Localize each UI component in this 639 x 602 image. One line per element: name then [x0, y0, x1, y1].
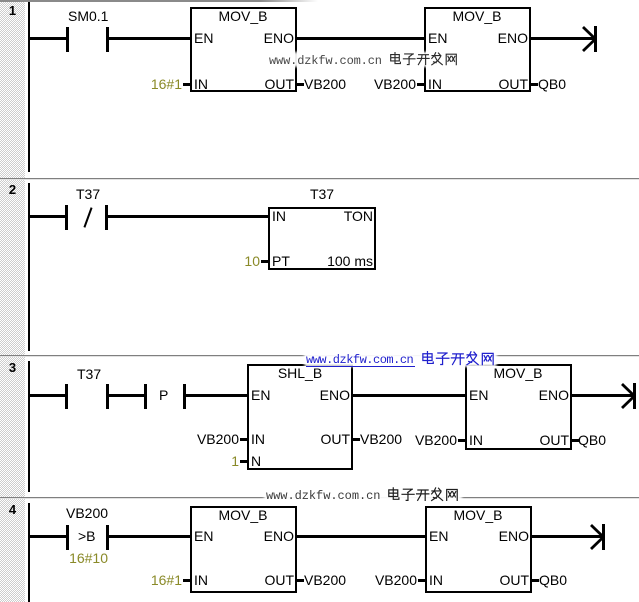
function block MOV_B (network 4 first)	[190, 506, 297, 593]
compare operator >B	[78, 529, 96, 543]
pin label ENO shl	[320, 388, 350, 402]
compare contact right bar	[106, 525, 109, 550]
contact label T37 (network 2)	[76, 187, 100, 201]
wire compare contact to MOV_B (network 4)	[109, 535, 192, 538]
title MOV_B	[183, 9, 303, 23]
operand VB200 at OUT n4a	[304, 573, 346, 587]
pin label EN second	[428, 31, 447, 45]
pin tick IN	[183, 83, 190, 86]
wire SHL_B ENO to MOV_B EN (network 3)	[353, 394, 465, 397]
contact P right bar	[183, 384, 186, 409]
operand VB200 at SHL OUT	[360, 432, 402, 446]
left margin gutter (dithered)	[0, 0, 25, 602]
pin label IN shl	[251, 432, 265, 446]
operand VB200 at IN mov3	[415, 433, 457, 447]
wire MOV_B ENO to MOV_B EN (network 4)	[297, 535, 425, 538]
pin tick IN shl	[240, 438, 247, 441]
operand QB0 network 4	[539, 573, 567, 587]
wire P contact to SHL_B block	[186, 394, 249, 397]
compare value 16#10	[69, 551, 108, 565]
network 1 number label	[0, 4, 25, 17]
title MOV_B second	[417, 9, 537, 23]
contact T37 NC left bar	[65, 205, 68, 230]
pin label IN timer	[272, 209, 286, 223]
pin label IN second	[428, 77, 442, 91]
pin tick IN n4b	[418, 579, 425, 582]
value 16#1 network 4	[151, 573, 182, 587]
pin tick N	[240, 460, 247, 463]
contact SM0.1 right bar	[106, 27, 109, 52]
operand VB200 at IN	[374, 77, 416, 91]
contact label T37 (network 3)	[77, 367, 101, 381]
pin tick OUT	[297, 83, 304, 86]
pin label IN	[194, 77, 208, 91]
contact P left bar	[144, 384, 147, 409]
pin label EN n4a	[194, 529, 213, 543]
watermark chinese network 4	[387, 487, 459, 502]
network separator 3	[0, 497, 639, 498]
network 2 number label	[0, 183, 25, 196]
timer operand label T37	[262, 187, 382, 201]
operand QB0 network 3	[578, 433, 606, 447]
wire MOV_B ENO to MOV_B EN (network 1)	[297, 37, 424, 40]
value 1 at N	[231, 454, 239, 468]
contact T37 NC right bar	[105, 205, 108, 230]
pin label OUT n4b	[499, 573, 529, 587]
title SHL_B	[240, 366, 360, 380]
value 16#1	[151, 77, 182, 91]
wire T37 contact to P contact	[109, 394, 144, 397]
block type TON	[344, 209, 373, 223]
wire ENO to continuation arrow (network 1)	[531, 37, 594, 40]
pin tick OUT n4b	[532, 579, 539, 582]
wire rail to compare contact	[30, 535, 66, 538]
pin label IN n4b	[429, 573, 443, 587]
watermark chinese network 3	[421, 351, 495, 366]
operand VB200 at OUT	[304, 77, 346, 91]
pin label ENO n4b	[499, 529, 529, 543]
timer block TON T37	[268, 207, 376, 270]
compare contact operand VB200	[66, 506, 108, 520]
wire rail to contact T37 (network 3)	[30, 394, 65, 397]
contact label SM0.1	[68, 9, 108, 23]
time base 100 ms	[327, 254, 373, 268]
operand VB200 at SHL IN	[197, 432, 239, 446]
pin label OUT n4a	[264, 573, 294, 587]
pin tick OUT mov3	[572, 439, 579, 442]
pin tick OUT second	[531, 83, 538, 86]
compare contact left bar	[66, 525, 69, 550]
pin tick IN mov3	[458, 439, 465, 442]
continuation arrow network 4	[590, 524, 607, 551]
pin label PT	[272, 254, 290, 268]
pin tick OUT shl	[353, 438, 360, 441]
pin tick IN second	[417, 83, 424, 86]
top toolbar edge	[0, 0, 318, 2]
pin label EN	[194, 31, 213, 45]
contact T37 NC slash	[83, 207, 93, 228]
wire contact SM0.1 to MOV_B block	[109, 37, 192, 40]
network separator 1	[0, 178, 639, 179]
operand VB200 at IN n4b	[375, 573, 417, 587]
pin label OUT mov3	[539, 433, 569, 447]
watermark url underline network 3	[306, 366, 415, 367]
watermark url network 1	[269, 54, 382, 68]
watermark chinese network 1	[389, 52, 458, 66]
wire rail to contact T37 NC	[30, 215, 65, 218]
pin tick PT	[261, 260, 268, 263]
pin label IN mov3	[469, 433, 483, 447]
contact SM0.1 left bar	[66, 27, 69, 52]
wire ENO to continuation arrow (network 4)	[532, 535, 602, 538]
left power rail network 1	[28, 2, 30, 172]
function block MOV_B (network 1 second)	[424, 7, 531, 92]
contact T37 left bar (network 3)	[65, 384, 68, 409]
pin label N	[251, 454, 261, 468]
watermark background network 3	[304, 351, 497, 367]
pin label ENO mov3	[539, 388, 569, 402]
value 10	[244, 254, 260, 268]
pin label EN shl	[251, 388, 270, 402]
function block MOV_B (network 1 first)	[190, 7, 297, 92]
edge contact letter P	[159, 388, 168, 402]
pin label ENO second	[498, 31, 528, 45]
watermark background network 1	[268, 52, 460, 67]
left power rail network 4	[28, 503, 30, 602]
pin label EN n4b	[429, 529, 448, 543]
title MOV_B net4 second	[418, 508, 538, 522]
wire contact to timer T37 box	[108, 215, 270, 218]
pin tick IN n4a	[183, 579, 190, 582]
watermark background network 4	[264, 487, 462, 502]
continuation arrow network 3	[621, 383, 638, 410]
pin label OUT shl	[320, 432, 350, 446]
left power rail network 3	[28, 361, 30, 492]
pin label OUT second	[498, 77, 528, 91]
title MOV_B network 3	[458, 366, 578, 380]
pin label ENO	[264, 31, 294, 45]
network 3 number label	[0, 361, 25, 374]
continuation arrow network 1	[582, 26, 599, 53]
pin label OUT	[264, 77, 294, 91]
left power rail network 2	[28, 183, 30, 351]
watermark url network 4	[266, 489, 380, 503]
contact T37 right bar (network 3)	[106, 384, 109, 409]
function block SHL_B	[247, 364, 353, 470]
function block MOV_B (network 4 second)	[425, 506, 532, 593]
pin label ENO n4a	[264, 529, 294, 543]
function block MOV_B (network 3)	[465, 364, 572, 450]
title MOV_B net4 first	[183, 508, 303, 522]
operand QB0	[538, 77, 566, 91]
network separator 2	[0, 355, 639, 356]
network 4 number label	[0, 503, 25, 516]
pin label EN mov3	[469, 388, 488, 402]
pin tick OUT n4a	[297, 579, 304, 582]
wire ENO to continuation arrow (network 3)	[572, 394, 634, 397]
watermark url network 3	[306, 353, 413, 367]
wire rail to contact SM0.1	[30, 37, 66, 40]
pin label IN n4a	[194, 573, 208, 587]
